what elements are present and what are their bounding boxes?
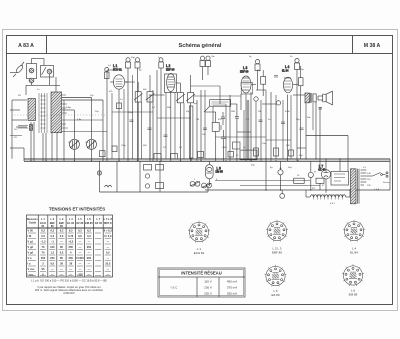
svg-text:EZ 80: EZ 80	[76, 221, 83, 225]
note box	[204, 100, 231, 112]
svg-text:TENSIONS ET INTENSITÉS: TENSIONS ET INTENSITÉS	[49, 207, 105, 212]
svg-text:—: —	[88, 241, 91, 244]
svg-text:Schéma général: Schéma général	[179, 43, 222, 49]
svg-text:—: —	[69, 268, 72, 271]
svg-text:8,5: 8,5	[50, 262, 54, 266]
wires mid	[196, 100, 198, 161]
secondary bus	[205, 189, 390, 191]
svg-text:6 + 6,3: 6 + 6,3	[104, 229, 113, 233]
variable capacitor CV2	[87, 139, 97, 161]
svg-text:85: 85	[60, 245, 63, 249]
svg-text:50n: 50n	[307, 117, 311, 119]
svg-text:250: 250	[69, 256, 74, 260]
svg-text:5k6: 5k6	[143, 89, 147, 91]
svg-text:L 6: L 6	[87, 217, 91, 221]
svg-text:GZ 40: GZ 40	[318, 169, 326, 172]
svg-text:L 5: L 5	[78, 217, 82, 221]
svg-text:—: —	[79, 241, 82, 244]
tone cap tap	[319, 108, 323, 110]
main ground bus	[24, 160, 390, 162]
wires from coil block to tuning gang	[62, 97, 92, 99]
svg-text:—: —	[69, 274, 72, 277]
svg-text:200: 200	[87, 256, 92, 260]
svg-text:V g2: V g2	[28, 245, 34, 249]
svg-text:V a: V a	[28, 256, 32, 260]
svg-text:47k: 47k	[218, 119, 222, 121]
svg-text:85: 85	[60, 256, 63, 260]
electrolytic right of L3	[255, 60, 260, 91]
svg-text:I osc: I osc	[28, 273, 34, 277]
electrolytic mid 2	[200, 56, 205, 80]
svg-text:A 83 A: A 83 A	[18, 43, 34, 49]
svg-text:240p: 240p	[66, 107, 72, 109]
svg-text:—: —	[60, 241, 63, 244]
svg-text:L 3: L 3	[243, 66, 248, 70]
svg-text:V g4: V g4	[28, 251, 34, 255]
svg-text:L 4: L 4	[285, 65, 290, 69]
svg-text:I a: I a	[28, 262, 31, 266]
svg-text:0,5: 0,5	[106, 251, 110, 255]
main coil block hatched	[51, 92, 62, 133]
speaker	[318, 91, 332, 105]
svg-text:0,1: 0,1	[152, 107, 156, 109]
svg-text:—: —	[79, 246, 82, 249]
dial lamp	[97, 171, 101, 175]
svg-text:1,2: 1,2	[50, 251, 54, 255]
electrolytic cap top 1	[126, 58, 131, 161]
svg-text:0,3: 0,3	[60, 251, 64, 255]
mains plug	[383, 172, 389, 177]
svg-text:Guide: Guide	[29, 220, 37, 224]
volume potentiometer tall	[189, 106, 193, 161]
svg-text:—: —	[88, 268, 91, 271]
svg-text:L 7: L 7	[96, 217, 100, 221]
svg-text:1,5 A: 1,5 A	[374, 188, 380, 191]
svg-text:50μ: 50μ	[300, 69, 304, 71]
small circle below L4	[276, 101, 280, 105]
caps mid	[221, 112, 225, 125]
wire bus left	[26, 84, 60, 86]
svg-text:0,76: 0,76	[68, 234, 74, 238]
power area wires	[305, 190, 307, 197]
trimmer pair below bus right	[202, 183, 212, 188]
tone box above bus	[240, 150, 257, 160]
svg-text:1n: 1n	[120, 99, 123, 101]
long feedback wire right	[305, 103, 307, 159]
svg-text:L 7-L 8: L 7-L 8	[104, 217, 113, 221]
electrolytic top mid	[206, 56, 211, 75]
antenna	[10, 62, 24, 77]
svg-text:—: —	[60, 268, 63, 271]
svg-text:0,3: 0,3	[41, 234, 45, 238]
svg-text:CV: CV	[68, 142, 72, 144]
electrolytic right of L4	[295, 59, 300, 162]
svg-text:0,1: 0,1	[108, 65, 112, 67]
svg-text:1: 1	[194, 179, 196, 181]
svg-text:3.000 Ω/V: 3.000 Ω/V	[63, 291, 75, 295]
svg-text:—: —	[107, 241, 110, 244]
svg-text:6M7 D: 6M7 D	[104, 221, 112, 225]
rectifier tube L7	[321, 170, 330, 190]
svg-text:V 50: V 50	[28, 229, 34, 233]
svg-text:—: —	[79, 268, 82, 271]
svg-text:250 mA: 250 mA	[227, 292, 237, 296]
small cap left of tube L1	[105, 68, 110, 79]
svg-text:—: —	[51, 274, 54, 277]
voltage selector switch	[366, 173, 382, 177]
title box M 38 A	[352, 36, 354, 54]
svg-text:25,5: 25,5	[105, 262, 111, 266]
svg-text:L 2: L 2	[50, 217, 54, 221]
svg-text:250: 250	[87, 245, 92, 249]
vertical wires centre	[152, 90, 154, 161]
capacitor symbols scattered	[130, 76, 304, 137]
tube L3	[241, 76, 253, 161]
switch box S2	[41, 59, 54, 78]
svg-text:130: 130	[367, 173, 371, 175]
svg-text:Mesures: Mesures	[27, 217, 38, 221]
svg-text:2M2: 2M2	[231, 111, 236, 113]
left tuning coil block small	[28, 99, 36, 121]
IF transformer 1	[134, 75, 154, 161]
dashed AGC line	[14, 114, 107, 116]
svg-text:0 / 0,3: 0 / 0,3	[104, 234, 112, 238]
extra vertical wires across midband	[112, 75, 313, 159]
socket L4	[343, 220, 365, 242]
socket L5	[265, 265, 287, 287]
svg-text:L 3: L 3	[60, 217, 64, 221]
socket L1	[188, 221, 210, 243]
svg-text:95: 95	[42, 267, 45, 271]
svg-text:1M: 1M	[196, 119, 199, 121]
per-cell underline segments	[28, 233, 111, 276]
svg-text:25μ: 25μ	[296, 119, 300, 121]
svg-text:25μ: 25μ	[257, 70, 261, 72]
svg-text:EBF 80: EBF 80	[166, 69, 175, 72]
svg-text:250: 250	[69, 245, 74, 249]
socket L2 L3	[266, 220, 288, 242]
component box right of L3	[261, 70, 266, 96]
svg-text:—: —	[88, 252, 91, 255]
inner border frame	[7, 36, 393, 305]
svg-text:0,3: 0,3	[50, 234, 54, 238]
svg-text:INTENSITÉ RÉSEAU: INTENSITÉ RÉSEAU	[181, 271, 222, 276]
svg-text:EBF 80: EBF 80	[272, 251, 282, 255]
tube L4 EL84	[283, 77, 292, 161]
svg-text:6,3: 6,3	[78, 229, 82, 233]
svg-text:EM 85: EM 85	[349, 293, 358, 297]
svg-text:V osc: V osc	[28, 267, 35, 271]
trimmer pair below bus left	[190, 181, 200, 186]
svg-text:0,3: 0,3	[87, 234, 91, 238]
svg-text:6,3: 6,3	[50, 229, 54, 233]
below-bus heater / dial lamp loop	[97, 161, 208, 192]
vertical wires right-mid	[229, 95, 231, 161]
svg-text:I S C: I S C	[171, 286, 179, 290]
svg-text:200: 200	[41, 256, 46, 260]
title bar separator	[7, 53, 393, 55]
svg-text:CV: CV	[85, 142, 89, 144]
footnotes under table	[31, 279, 107, 296]
svg-text:I fil: I fil	[28, 234, 32, 238]
svg-text:ECH 81: ECH 81	[194, 251, 205, 255]
svg-text:3: 3	[42, 262, 44, 266]
svg-text:ECH 81: ECH 81	[113, 69, 122, 72]
svg-text:50μ: 50μ	[299, 155, 303, 157]
svg-text:0,1: 0,1	[246, 119, 250, 121]
socket L6	[342, 264, 364, 286]
svg-text:L 4: L 4	[69, 217, 73, 221]
svg-text:—: —	[107, 257, 110, 260]
svg-text:EL 84: EL 84	[67, 221, 74, 225]
svg-text:—: —	[88, 263, 91, 266]
svg-text:4: 4	[70, 251, 72, 255]
svg-text:—: —	[51, 268, 54, 271]
svg-text:27k: 27k	[163, 147, 167, 149]
horizontal connecting wires midband	[62, 70, 306, 148]
magic eye tube L6	[206, 161, 214, 186]
svg-text:125p: 125p	[121, 145, 127, 147]
svg-text:220: 220	[367, 185, 371, 187]
wire antenna to S1	[32, 58, 45, 60]
table row data	[28, 229, 113, 277]
svg-text:—: —	[79, 252, 82, 255]
svg-text:EZ 80: EZ 80	[271, 293, 279, 297]
svg-text:0,3: 0,3	[60, 234, 64, 238]
svg-text:6,3: 6,3	[41, 229, 45, 233]
svg-text:EL 84: EL 84	[282, 70, 289, 73]
electrolytic cap top 2	[135, 58, 140, 161]
svg-text:10n: 10n	[202, 134, 206, 136]
resistor mid low	[212, 122, 219, 131]
cathode resistor box right	[299, 66, 304, 92]
svg-text:6,3: 6,3	[60, 229, 64, 233]
svg-text:50p: 50p	[186, 111, 190, 113]
svg-text:0,6: 0,6	[78, 234, 82, 238]
svg-text:560: 560	[143, 145, 147, 147]
svg-text:V g1: V g1	[28, 240, 34, 244]
power transformer	[351, 169, 367, 204]
resistors on second bus	[294, 178, 305, 183]
svg-text:PO: PO	[14, 137, 17, 139]
svg-text:—: —	[88, 274, 91, 277]
svg-text:6,3: 6,3	[69, 229, 73, 233]
svg-text:47: 47	[322, 185, 325, 187]
svg-text:25μ: 25μ	[251, 165, 255, 167]
svg-text:6,3 V: 6,3 V	[330, 203, 336, 205]
svg-text:6: 6	[42, 273, 44, 277]
svg-text:—: —	[60, 274, 63, 277]
svg-text:2×300: 2×300	[76, 256, 84, 260]
svg-text:47k: 47k	[109, 91, 113, 93]
svg-text:36: 36	[69, 262, 72, 266]
svg-text:150k: 150k	[222, 147, 228, 149]
svg-text:−6,5: −6,5	[68, 240, 74, 244]
svg-text:70: 70	[42, 251, 45, 255]
tube L1 ECH81	[110, 75, 128, 161]
svg-text:130: 130	[286, 145, 290, 147]
svg-text:25p: 25p	[95, 111, 99, 113]
svg-text:L 1: L 1	[113, 64, 118, 68]
svg-text:EM 85: EM 85	[216, 171, 224, 174]
svg-text:—: —	[107, 274, 110, 277]
svg-text:220: 220	[50, 256, 55, 260]
svg-text:220 V: 220 V	[204, 292, 212, 296]
svg-text:0,1: 0,1	[363, 167, 367, 169]
svg-text:8μ: 8μ	[139, 70, 142, 72]
coupling cap below S1	[29, 78, 34, 83]
svg-text:−1,5: −1,5	[40, 240, 46, 244]
svg-text:70: 70	[42, 245, 45, 249]
svg-text:—: —	[79, 263, 82, 266]
title box A 83 A	[46, 36, 48, 54]
svg-text:EM 85: EM 85	[85, 221, 93, 225]
wires under coil block	[30, 122, 32, 161]
svg-text:EBF 80: EBF 80	[240, 71, 249, 74]
small parts on loop	[144, 165, 152, 171]
tube L2 EBF80	[165, 74, 177, 162]
heater squiggle	[105, 185, 112, 187]
svg-text:2k: 2k	[297, 175, 300, 177]
svg-text:EL 84: EL 84	[350, 251, 358, 255]
electrolytic caps on second bus	[278, 161, 283, 190]
svg-text:220p: 220p	[128, 112, 134, 114]
svg-text:1n: 1n	[37, 89, 40, 91]
svg-text:47: 47	[236, 155, 239, 157]
svg-text:50μ: 50μ	[288, 167, 292, 169]
svg-text:−235: −235	[77, 273, 83, 277]
svg-text:—: —	[107, 246, 110, 249]
tiny value labels sprinkled (texture)	[14, 56, 391, 205]
switch box S1	[27, 59, 37, 79]
svg-text:−1: −1	[51, 240, 55, 244]
svg-text:pot: pot	[194, 102, 197, 105]
svg-text:6,3: 6,3	[87, 229, 91, 233]
svg-text:2n: 2n	[290, 56, 293, 58]
long vertical wires mid left	[102, 100, 104, 161]
output transformer	[293, 93, 316, 103]
IF transformer 2	[176, 75, 195, 161]
svg-text:450 mA: 450 mA	[227, 280, 237, 284]
svg-text:110: 110	[367, 179, 371, 181]
third partial bus	[215, 180, 310, 182]
resistor below L1	[117, 103, 122, 109]
svg-text:L 1: L 1	[41, 217, 45, 221]
svg-text:130 V: 130 V	[204, 286, 212, 290]
svg-text:GO: GO	[14, 129, 18, 131]
small component rects above bus	[100, 146, 294, 159]
svg-text:10n: 10n	[211, 56, 215, 58]
svg-text:5p: 5p	[249, 56, 252, 58]
svg-text:50μ: 50μ	[131, 57, 135, 59]
svg-text:0,1: 0,1	[179, 147, 183, 149]
svg-text:L 2: L 2	[166, 64, 171, 68]
left pickup wires	[11, 100, 13, 159]
heater chain coil	[306, 194, 350, 200]
left coil vertical lines	[39, 93, 47, 133]
variable capacitor CV1	[69, 139, 79, 161]
svg-text:Secteur: Secteur	[383, 181, 391, 184]
wire grid feed	[191, 86, 266, 159]
svg-text:375 mA: 375 mA	[227, 286, 237, 290]
svg-text:—: —	[107, 268, 110, 271]
left low horizontal wires	[23, 148, 25, 161]
svg-text:38: 38	[60, 262, 63, 266]
filter box	[331, 171, 349, 185]
svg-text:110 V: 110 V	[204, 280, 212, 284]
svg-text:GZ 40: GZ 40	[95, 221, 103, 225]
svg-text:470k: 470k	[285, 111, 291, 113]
svg-text:12p: 12p	[90, 95, 94, 97]
svg-text:L 1 μA. GO 190 à 510 — PO 51: L 1 μA. GO 190 à 510 — PO 510 à 1600 — O…	[31, 279, 107, 283]
svg-text:100: 100	[50, 245, 55, 249]
svg-text:8μ: 8μ	[270, 167, 273, 169]
svg-text:1M: 1M	[258, 111, 261, 113]
svg-text:PU: PU	[18, 95, 21, 97]
small cap left of tube L2	[159, 58, 164, 68]
svg-text:M 38 A: M 38 A	[364, 43, 381, 49]
feed line right of speaker	[306, 135, 348, 137]
